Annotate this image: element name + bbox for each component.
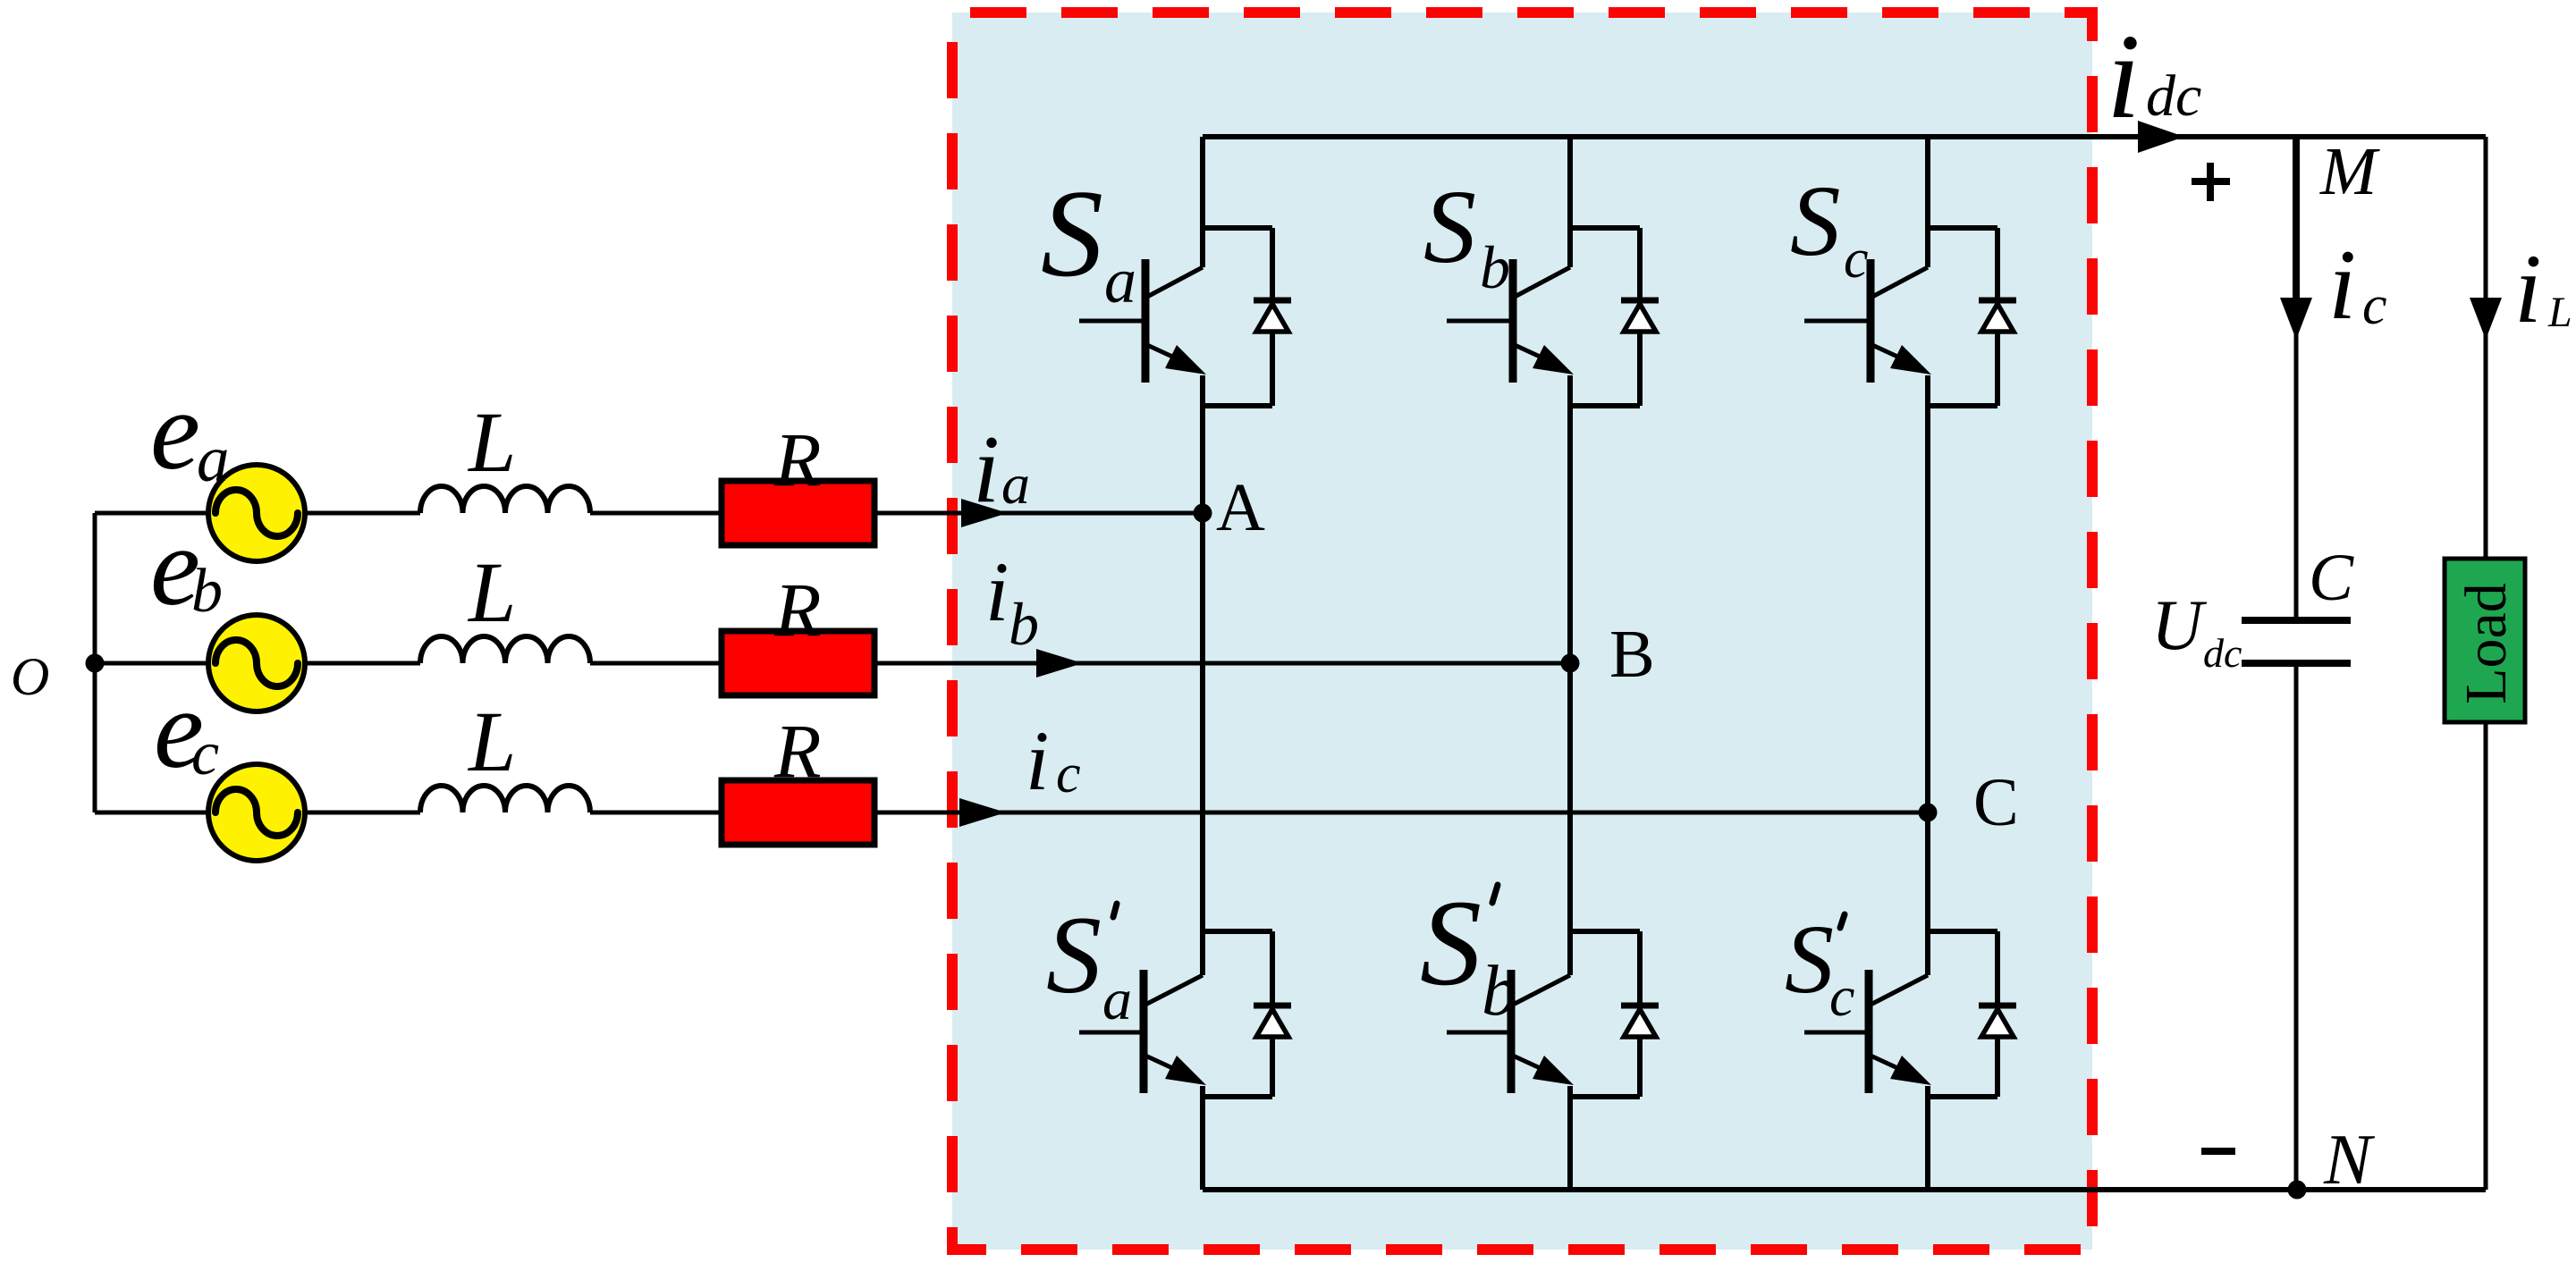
wire leg c lower emitter — [1925, 1086, 1930, 1190]
svg-text:C: C — [2309, 541, 2354, 615]
source ea — [208, 465, 305, 561]
svg-text:dc: dc — [2146, 63, 2201, 129]
transistor Sb (upper IGBT with antiparallel diode) — [1447, 228, 1659, 406]
wire phase a: inductor to resistor — [590, 511, 722, 516]
svg-text:L: L — [2547, 289, 2572, 336]
node C — [1919, 804, 1938, 822]
converter shaded region (light blue) — [952, 13, 2092, 1250]
wire phase b: rail to source — [95, 661, 209, 666]
wire leg c upper collector — [1925, 137, 1930, 267]
svg-text:B: B — [1609, 617, 1655, 692]
svg-text:c: c — [1056, 744, 1081, 804]
plus label — [2192, 163, 2230, 201]
sine symbol — [215, 490, 298, 536]
wire leg a upper collector — [1200, 137, 1205, 267]
svg-text:L: L — [467, 394, 516, 490]
capacitor C bottom plate — [2242, 660, 2351, 667]
wire load to negative bus — [2484, 722, 2488, 1190]
svg-text:R: R — [773, 417, 822, 502]
wire capacitor branch to top plate — [2294, 304, 2299, 620]
svg-text:i: i — [2107, 10, 2141, 144]
node A — [1194, 504, 1212, 523]
wire leg b upper collector — [1567, 137, 1573, 267]
current arrow iL — [2470, 298, 2502, 340]
transistor Sa' (lower IGBT with antiparallel diode) — [1079, 931, 1291, 1097]
minus label — [2201, 1148, 2235, 1155]
dc negative bus — [1203, 1187, 2486, 1192]
wire leg a lower emitter — [1200, 1086, 1205, 1190]
svg-text:S: S — [1790, 165, 1841, 277]
sine symbol — [215, 640, 298, 686]
wire phase c: inductor to resistor — [590, 811, 722, 815]
svg-text:A: A — [1216, 470, 1265, 545]
inductor L (phase c) — [420, 786, 590, 812]
svg-text:N: N — [2323, 1121, 2376, 1199]
svg-text:S: S — [1046, 894, 1102, 1016]
svg-text:c: c — [1829, 964, 1854, 1028]
transistor Sa (upper IGBT with antiparallel diode) — [1079, 228, 1291, 406]
svg-text:R: R — [773, 567, 822, 652]
inductor L (phase b) — [420, 636, 590, 663]
wire leg b middle — [1567, 375, 1573, 975]
svg-text:b: b — [1009, 590, 1039, 658]
wire left rail — [93, 513, 97, 812]
dc positive bus — [1203, 134, 2486, 139]
svg-text:i: i — [2328, 230, 2356, 341]
source ec — [208, 764, 305, 861]
svg-text:O: O — [11, 647, 49, 706]
svg-text:S: S — [1785, 905, 1834, 1014]
svg-text:R: R — [773, 708, 822, 794]
svg-text:b: b — [1482, 952, 1517, 1031]
current arrow ia — [961, 499, 1008, 527]
inductor L (phase a) — [420, 486, 590, 513]
wire load branch upper — [2484, 137, 2488, 559]
svg-text:C: C — [1973, 765, 2019, 840]
capacitor C top plate — [2242, 617, 2351, 624]
sine symbol — [215, 789, 298, 836]
converter dashed red border — [952, 13, 2092, 1250]
wire capacitor branch upper (ic arrow shaft) — [2293, 137, 2300, 299]
svg-text:U: U — [2151, 586, 2208, 665]
node B — [1561, 654, 1580, 673]
transistor Sc' (lower IGBT with antiparallel diode) — [1804, 931, 2016, 1097]
wire phase c: source to inductor — [305, 811, 420, 815]
transistor Sc (upper IGBT with antiparallel diode) — [1804, 228, 2016, 406]
source eb — [208, 615, 305, 711]
wire phase b: inductor to resistor — [590, 661, 722, 666]
current arrow ic — [959, 798, 1006, 827]
wire phase c: rail to source — [95, 811, 209, 815]
transistor Sb' (lower IGBT with antiparallel diode) — [1447, 931, 1659, 1097]
svg-text:Load: Load — [2454, 583, 2519, 704]
resistor R (phase a) — [722, 481, 874, 545]
node N — [2288, 1181, 2307, 1199]
wire phase b: source to inductor — [305, 661, 420, 666]
svg-text:M: M — [2319, 134, 2380, 209]
resistor R (phase c) — [722, 780, 874, 845]
svg-text:S: S — [1041, 164, 1103, 303]
current arrow ib — [1036, 649, 1083, 678]
svg-text:c: c — [191, 720, 219, 788]
svg-text:L: L — [467, 694, 516, 789]
svg-text:a: a — [1104, 245, 1136, 316]
svg-text:i: i — [973, 417, 1000, 523]
svg-text:e: e — [150, 369, 200, 493]
node O — [86, 654, 105, 673]
svg-text:c: c — [1844, 229, 1869, 290]
load (green box) — [2445, 559, 2525, 722]
svg-text:b: b — [191, 557, 223, 626]
svg-text:c: c — [2362, 275, 2387, 336]
svg-text:i: i — [985, 544, 1009, 639]
wire phase a: source to inductor — [305, 511, 420, 516]
wire capacitor bottom plate to negative bus — [2294, 663, 2299, 1190]
wire leg c middle — [1925, 375, 1930, 975]
wire leg a middle — [1200, 375, 1205, 975]
current arrow idc — [2138, 121, 2184, 153]
wire leg b lower emitter — [1567, 1086, 1573, 1190]
wire phase b: resistor to node B — [874, 661, 1570, 666]
svg-text:a: a — [1102, 967, 1132, 1032]
svg-text:S: S — [1420, 874, 1482, 1011]
resistor R (phase b) — [722, 631, 874, 695]
svg-text:i: i — [1026, 713, 1049, 808]
svg-text:b: b — [1480, 233, 1510, 301]
svg-text:S: S — [1423, 168, 1476, 285]
svg-text:i: i — [2514, 234, 2542, 343]
wire phase c: resistor to node C — [874, 811, 1928, 815]
svg-text:a: a — [197, 423, 230, 495]
svg-text:a: a — [1001, 452, 1030, 516]
wire phase a: resistor to node A — [874, 511, 1203, 516]
svg-text:dc: dc — [2203, 630, 2242, 676]
svg-text:L: L — [467, 544, 516, 640]
current arrow ic (dc link) — [2280, 298, 2312, 340]
wire phase a: rail to source — [95, 511, 209, 516]
